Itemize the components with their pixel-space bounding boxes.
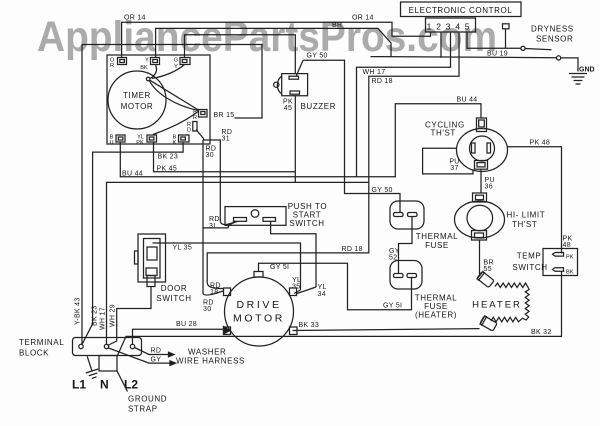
svg-text:34: 34 (318, 291, 326, 298)
svg-text:TIMER: TIMER (123, 91, 151, 100)
svg-text:GY: GY (151, 357, 162, 364)
svg-text:BU 44: BU 44 (457, 97, 478, 104)
svg-text:U: U (109, 140, 113, 146)
wire YL 35 (153, 243, 302, 294)
svg-text:Y-BK 43: Y-BK 43 (75, 297, 82, 325)
wire BU 28 (133, 321, 231, 344)
wire RD 18 (207, 32, 459, 296)
dryness sensor (521, 25, 574, 61)
svg-text:R: R (193, 115, 197, 121)
timer terminal B-R (193, 110, 207, 122)
svg-text:FUSE: FUSE (425, 241, 449, 250)
svg-text:K: K (173, 140, 177, 146)
svg-text:SENSOR: SENSOR (536, 35, 573, 44)
svg-text:SWITCH: SWITCH (289, 219, 324, 228)
wire Y-BK 43 (75, 45, 83, 345)
wire RD 30 (203, 140, 223, 313)
wire GY 51 (259, 263, 412, 310)
push to start switch (225, 202, 327, 228)
svg-text:TH'ST: TH'ST (512, 220, 537, 229)
svg-text:37: 37 (450, 165, 458, 172)
svg-text:Y: Y (174, 64, 178, 70)
wire BK 23 left (92, 305, 99, 326)
wire PK 45 buzzer drop (294, 96, 296, 183)
wire BK 23 timer (82, 142, 183, 345)
svg-text:YL 35: YL 35 (173, 245, 193, 252)
svg-text:N: N (100, 378, 109, 392)
svg-text:SWITCH: SWITCH (156, 294, 191, 303)
wire BU 44 (120, 97, 481, 178)
svg-text:PK 48: PK 48 (530, 140, 551, 147)
svg-text:DRYNESS: DRYNESS (531, 25, 574, 34)
door switch (135, 234, 192, 303)
drive motor (224, 272, 298, 347)
svg-text:BR 15: BR 15 (214, 112, 235, 119)
buzzer (274, 74, 336, 112)
thermal fuse 2 (390, 261, 457, 320)
svg-text:BLOCK: BLOCK (19, 349, 49, 358)
svg-text:BUZZER: BUZZER (301, 102, 337, 111)
svg-text:D: D (187, 128, 191, 134)
svg-text:BK 23: BK 23 (158, 153, 179, 160)
thermal fuse 1 (390, 201, 458, 250)
temp switch (512, 249, 577, 276)
wire PU 37 (423, 148, 473, 174)
svg-text:BK: BK (566, 270, 574, 276)
wire YL 34 (271, 221, 327, 298)
wire PU 36 (481, 169, 495, 193)
wire BR 55 (480, 240, 494, 276)
svg-text:TEMP: TEMP (517, 252, 542, 261)
svg-text:RD 18: RD 18 (342, 246, 363, 253)
wire RD 31 (196, 129, 237, 230)
timer terminal O-R (110, 58, 127, 70)
svg-text:ELECTRONIC CONTROL: ELECTRONIC CONTROL (409, 6, 513, 15)
cycling thermostat (425, 118, 508, 172)
svg-text:TERMINAL: TERMINAL (19, 338, 64, 347)
svg-text:BR: BR (332, 22, 342, 29)
svg-text:WASHER: WASHER (188, 348, 226, 357)
timer terminal B-K (173, 135, 189, 147)
svg-text:GND: GND (579, 67, 595, 74)
svg-text:BK 32: BK 32 (531, 329, 552, 336)
ground strap (99, 356, 167, 414)
svg-text:RD 18: RD 18 (372, 78, 393, 85)
svg-text:OR 14: OR 14 (352, 15, 374, 22)
wire BU 19 (467, 24, 521, 58)
svg-text:L1: L1 (72, 378, 86, 392)
svg-text:SWITCH: SWITCH (512, 263, 547, 272)
svg-text:BU 19: BU 19 (487, 51, 508, 58)
wire fuse1 to fuse2 (389, 217, 412, 274)
svg-text:GY 50: GY 50 (307, 53, 328, 60)
ground GND (561, 58, 595, 84)
svg-text:(HEATER): (HEATER) (415, 311, 457, 320)
wire WH 29 (108, 287, 152, 346)
wire push switch left (203, 221, 237, 228)
wire GY 50 long (296, 53, 400, 213)
svg-text:PK 45: PK 45 (157, 166, 178, 173)
washer harness RD (135, 348, 227, 357)
svg-text:30: 30 (203, 306, 211, 313)
timer terminal Y (140, 58, 159, 72)
wire GY to buzzer top (185, 35, 296, 74)
svg-text:45: 45 (284, 105, 292, 112)
svg-text:RD: RD (209, 216, 220, 223)
svg-text:MOTOR: MOTOR (233, 313, 285, 325)
electronic control (401, 2, 522, 58)
svg-text:PK: PK (566, 255, 574, 261)
svg-text:BU 28: BU 28 (176, 321, 197, 328)
terminal block (19, 338, 142, 392)
svg-text:PK: PK (136, 140, 144, 146)
timer terminal B-U (109, 135, 125, 147)
svg-text:STRAP: STRAP (128, 405, 158, 414)
svg-text:WH 17: WH 17 (100, 307, 107, 330)
wire bus WH 17 (107, 32, 451, 344)
timer motor box (107, 55, 210, 144)
heater element (472, 283, 529, 322)
wire BR 15 (82, 45, 262, 120)
svg-text:GROUND: GROUND (128, 395, 167, 404)
svg-text:BK 33: BK 33 (299, 322, 320, 329)
washer harness GY (109, 348, 246, 366)
svg-text:Y: Y (145, 58, 149, 64)
timer terminal YL-PK (136, 135, 156, 147)
wire PK 45 (154, 142, 296, 173)
wire BK 33 (293, 322, 480, 331)
svg-text:TH'ST: TH'ST (431, 129, 456, 138)
wire GY 50 branch to fuse (371, 57, 557, 194)
svg-text:DOOR: DOOR (161, 284, 187, 293)
svg-text:OR 14: OR 14 (124, 15, 146, 22)
svg-text:HEATER: HEATER (472, 300, 522, 311)
svg-text:WIRE HARNESS: WIRE HARNESS (176, 357, 245, 366)
wire BR (156, 22, 391, 58)
svg-text:HI- LIMIT: HI- LIMIT (507, 211, 546, 220)
wire BK 32 (118, 272, 562, 356)
svg-text:G: G (174, 58, 178, 64)
svg-text:R: R (110, 63, 114, 69)
wire OR 14 top (122, 15, 431, 58)
svg-text:YL: YL (318, 284, 327, 291)
timer terminal G-Y (174, 58, 190, 71)
svg-text:30: 30 (206, 152, 214, 159)
heater bottom plug (480, 315, 498, 331)
svg-text:BK: BK (140, 65, 148, 71)
svg-text:WH 17: WH 17 (363, 69, 386, 76)
svg-text:3I: 3I (209, 223, 215, 230)
svg-text:12345: 12345 (427, 22, 475, 32)
svg-text:GY 5I: GY 5I (270, 264, 289, 271)
svg-text:BU 44: BU 44 (122, 170, 143, 177)
svg-text:MOTOR: MOTOR (121, 102, 154, 111)
svg-text:18: 18 (210, 289, 218, 296)
heater top plug (477, 271, 495, 288)
svg-text:BK 23: BK 23 (92, 305, 99, 326)
svg-text:WH 29: WH 29 (110, 304, 117, 327)
ground symbol left (81, 354, 100, 379)
svg-text:RD: RD (151, 348, 162, 355)
svg-text:36: 36 (485, 184, 493, 191)
timer terminal R-D (187, 122, 197, 134)
svg-text:THERMAL: THERMAL (416, 232, 458, 241)
svg-text:DRIVE: DRIVE (236, 299, 281, 311)
wire PK 48 (508, 140, 573, 254)
svg-text:GY 5I: GY 5I (383, 303, 402, 310)
hi-limit thermostat (455, 193, 546, 240)
svg-text:31: 31 (222, 136, 230, 143)
